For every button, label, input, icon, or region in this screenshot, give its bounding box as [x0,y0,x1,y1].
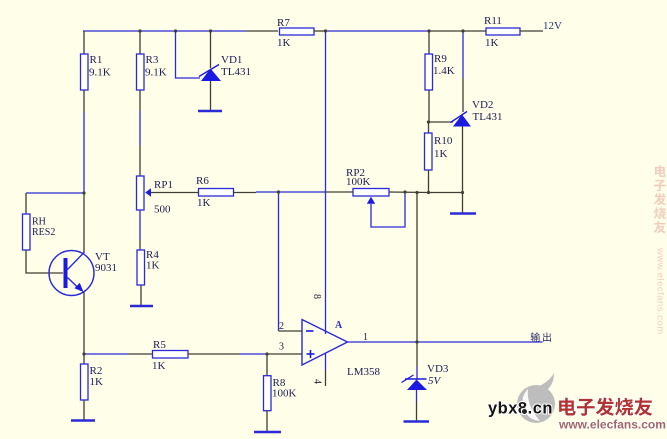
watermark text www.elecfans.com [558,418,666,432]
wire emitter node to R5 (blue) [84,353,128,355]
svg-text:R7: R7 [277,17,290,29]
diode VD2 TL431 [451,99,503,127]
wire output pin1 [348,341,543,343]
ground under R8 [254,431,281,433]
resistor R2 [81,364,104,400]
wire rail R7 to pin8 vertical (dark) [314,30,327,32]
wire ref node to VD2 (dark) [429,121,453,123]
svg-text:R10: R10 [434,135,453,147]
svg-text:1K: 1K [485,37,499,49]
wire R9 drop (dark) [428,31,430,54]
wire R10 top stub (dark) [428,122,430,133]
wire to R5 (dark) [128,353,153,355]
net label 12V [543,20,562,32]
resistor R5 [152,339,188,372]
svg-text:VD3: VD3 [427,363,449,375]
resistor R4 [137,249,160,285]
diode VD1 TL431 [199,54,251,81]
wire VD1 ref drop [176,31,201,78]
svg-text:2: 2 [279,321,284,332]
resistor R10 [425,133,453,170]
wire R6 to RP2 [234,191,354,194]
svg-text:VD2: VD2 [472,99,493,111]
wire R2 top stub (dark) [83,354,85,364]
ground under R2 [71,419,95,421]
wire rail mid (blue) [326,30,430,32]
svg-text:LM358: LM358 [347,366,381,378]
svg-text:8: 8 [311,294,322,299]
wire top rail left (blue) [83,30,278,32]
resistor RH [23,214,56,250]
wire VD3 to ground [416,390,418,421]
potentiometer RP1 [137,176,173,216]
svg-text:1K: 1K [197,197,211,209]
svg-text:R6: R6 [196,175,209,187]
svg-text:R3: R3 [146,54,159,66]
watermark text ybx8.cn [488,400,553,418]
ground under VD2 [450,212,476,214]
wire pin8 vertical [325,31,327,334]
resistor R1 [81,54,111,90]
wire VD1 cathode drop (dark) [210,31,212,68]
svg-text:www.elecfans.com: www.elecfans.com [558,418,666,432]
resistor R8 [264,376,297,411]
svg-text:R9: R9 [434,53,447,65]
ground under R4 [130,305,153,307]
svg-text:R1: R1 [90,54,103,66]
diode VD3 5V zener [402,363,449,390]
wire VD1 anode stub (dark) [210,81,212,110]
pin number 1 [363,332,368,343]
wire RP2 wiper loop [371,192,405,227]
wire rail to VD2 top (dark) [429,30,463,32]
wire emitter vertical (dark) [83,292,85,354]
wire VD2 cathode drop [462,31,464,112]
svg-text:1K: 1K [90,376,104,388]
svg-text:1K: 1K [146,260,160,272]
wire RP2 to R10 node (dark) [389,191,429,194]
svg-text:A: A [335,320,343,331]
wire R8 to ground (dark) [266,411,268,432]
wire RP1 to R4 [139,210,141,250]
wire R5 to pin3 [188,353,302,355]
wire VD2 anode to ground (dark) [462,127,464,214]
pin number 4 (rotated) [312,379,323,384]
wire R9 bottom to ref node (dark) [428,90,430,122]
pin number 3 [279,342,284,353]
svg-text:VD1: VD1 [221,54,242,66]
svg-text:TL431: TL431 [473,111,503,123]
svg-text:12V: 12V [543,20,562,32]
resistor R6 [196,175,234,209]
wire R8 top stub (dark) [266,354,268,376]
svg-text:TL431: TL431 [221,66,251,78]
resistor R3 [137,54,167,90]
wire RH bottom to base (dark) [26,250,63,273]
wire rail VD2 to R11 (dark) [463,30,486,32]
svg-text:3: 3 [279,342,284,353]
svg-text:5V: 5V [428,375,442,387]
svg-text:9031: 9031 [95,262,117,274]
wire R2 to ground (dark) [83,400,85,420]
watermark right edge vertical elecfans [654,165,666,334]
svg-text:R5: R5 [153,339,166,351]
wire R3 top lead (dark) [139,31,141,54]
svg-text:1K: 1K [152,360,166,372]
svg-text:RP1: RP1 [154,179,173,191]
ground under VD3 [404,420,430,422]
svg-text:1.4K: 1.4K [433,65,455,77]
svg-text:4: 4 [312,379,323,384]
wire R4 to ground (dark) [140,285,142,305]
wire RH top [26,193,84,214]
svg-text:www.elecfans.com: www.elecfans.com [655,247,666,335]
svg-text:RH: RH [32,217,46,228]
svg-text:ybx8.cn: ybx8.cn [488,400,553,418]
svg-text:1K: 1K [277,37,291,49]
wire R1 top lead (dark) [83,31,85,54]
watermark logo circle [517,373,555,423]
transistor VT 9031 [49,251,117,296]
svg-text:1K: 1K [434,148,448,160]
wire R1 bottom to node [83,90,85,193]
wire R3 bottom to RP1 [139,90,141,176]
svg-text:9.1K: 9.1K [145,67,167,79]
potentiometer RP2 [346,167,389,204]
resistor R9 [425,53,455,90]
wire pin 4 stub (dark) [325,354,327,387]
resistor R11 [484,15,520,49]
op-amp U1 LM358 [302,320,381,379]
wire RP1 wiper to R6 (dark) [151,192,199,194]
wire pin2 vertical [278,192,280,331]
svg-text:500: 500 [154,204,171,216]
watermark text elecfans red [559,398,652,416]
wire R10 bottom (dark) [429,170,463,193]
wire collector vertical (dark) [83,193,85,252]
pin number 2 [279,321,284,332]
wire VD3 vertical (dark) [416,193,418,380]
svg-text:100K: 100K [346,176,371,188]
svg-text:100K: 100K [272,388,297,400]
net label output [531,332,551,341]
svg-text:9.1K: 9.1K [89,67,111,79]
pin number 8 (rotated) [311,294,322,299]
wire pin 2 lead (dark) [279,330,303,332]
resistor R7 [277,17,314,49]
wire R11 to 12V (dark) [520,30,543,32]
svg-text:RES2: RES2 [32,227,55,238]
svg-text:R11: R11 [484,15,502,27]
ground under VD1 [198,110,222,112]
